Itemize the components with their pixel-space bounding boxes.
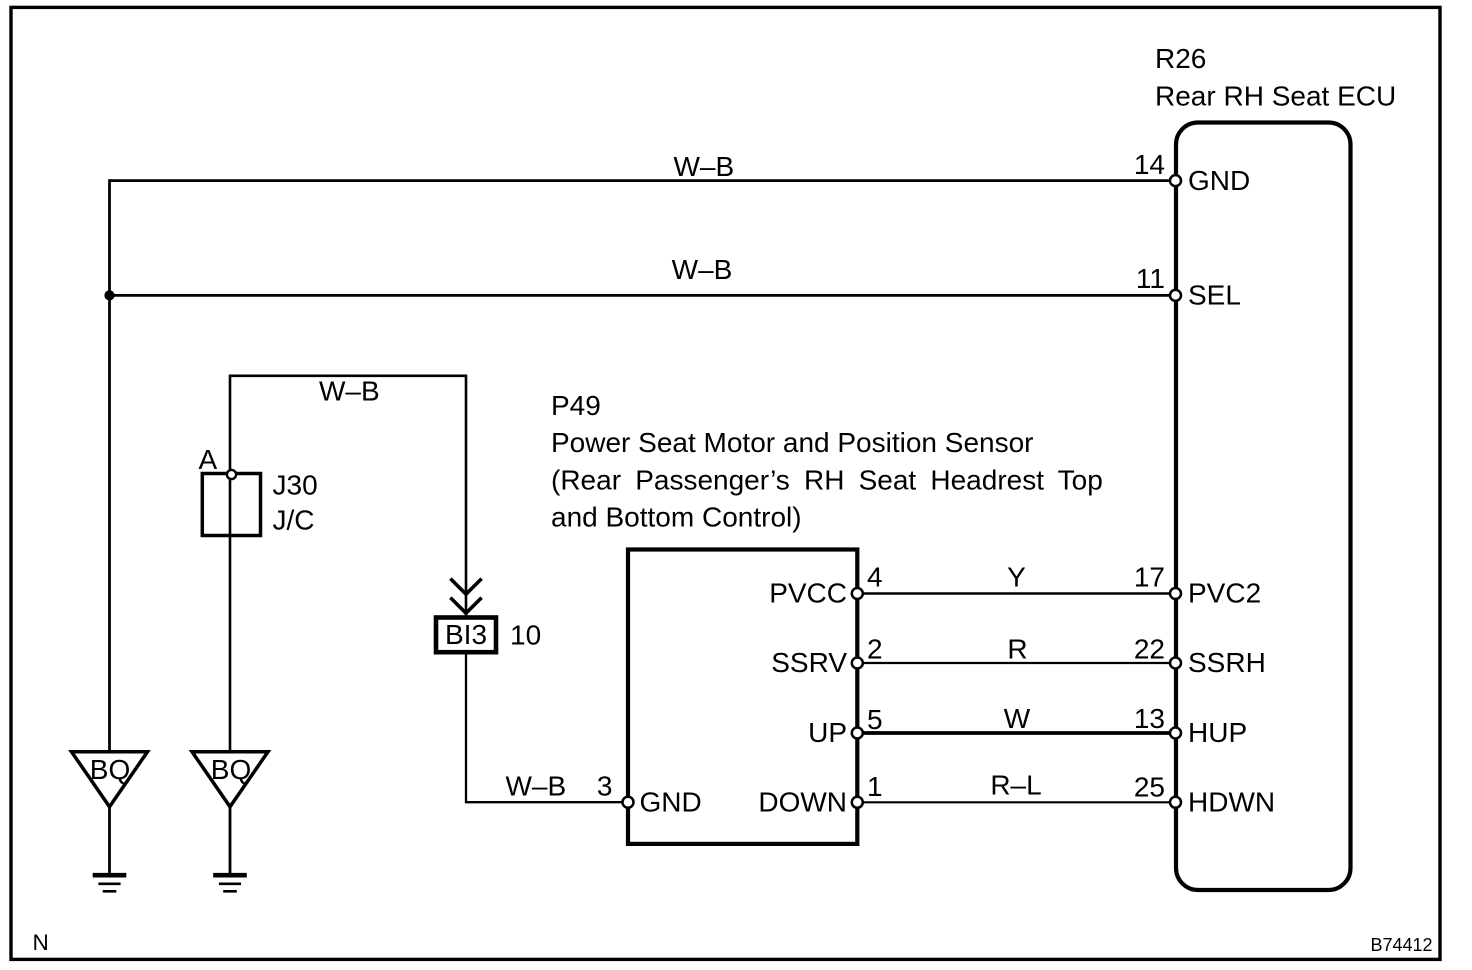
svg-text:R26: R26 <box>1155 43 1206 74</box>
wire from node A up and right <box>230 376 466 752</box>
ground BQ 2 triangle <box>192 752 268 807</box>
svg-text:GND: GND <box>640 787 702 818</box>
pin 17 PVC2 circle <box>1170 588 1181 599</box>
svg-text:P49: P49 <box>551 390 601 421</box>
svg-text:2: 2 <box>867 634 883 665</box>
svg-text:R–L: R–L <box>990 770 1041 801</box>
svg-text:J/C: J/C <box>273 505 315 536</box>
connector arrow chevron 1 <box>450 579 481 595</box>
svg-text:1: 1 <box>867 771 883 802</box>
ground BQ 1 triangle <box>72 752 148 807</box>
svg-text:W–B: W–B <box>505 771 566 802</box>
pin 2 SSRV circle <box>852 658 863 669</box>
svg-text:Y: Y <box>1007 562 1026 593</box>
connector arrow chevron 2 <box>450 598 481 614</box>
svg-text:GND: GND <box>1188 165 1250 196</box>
svg-text:DOWN: DOWN <box>758 787 847 818</box>
svg-text:and Bottom Control): and Bottom Control) <box>551 502 802 533</box>
connector BI3 box <box>436 618 496 653</box>
svg-text:5: 5 <box>867 704 883 735</box>
pin 11 SEL circle <box>1170 290 1181 301</box>
wire left vertical to ground BQ <box>108 179 111 752</box>
pin 3 GND circle <box>623 797 634 808</box>
svg-text:UP: UP <box>808 717 847 748</box>
svg-text:HDWN: HDWN <box>1188 787 1275 818</box>
svg-text:R: R <box>1007 634 1027 665</box>
svg-text:PVC2: PVC2 <box>1188 578 1261 609</box>
wire BI3 to GND pin 3 <box>466 654 624 802</box>
svg-text:(Rear Passenger’s RH Seat Head: (Rear Passenger’s RH Seat Headrest Top <box>551 465 1103 496</box>
svg-text:Power Seat Motor and Position: Power Seat Motor and Position Sensor <box>551 427 1033 458</box>
J30 junction box <box>202 474 260 536</box>
pin 4 PVCC circle <box>852 588 863 599</box>
ground symbol 1 <box>93 873 127 878</box>
svg-text:22: 22 <box>1134 634 1165 665</box>
svg-text:10: 10 <box>510 620 541 651</box>
svg-text:N: N <box>33 930 49 955</box>
svg-text:SSRV: SSRV <box>771 647 847 678</box>
svg-text:J30: J30 <box>273 470 318 501</box>
svg-text:Rear RH Seat ECU: Rear RH Seat ECU <box>1155 81 1396 112</box>
wire SSRV to SSRH (R) <box>857 662 1172 664</box>
ground symbol 2 <box>213 873 247 878</box>
svg-text:25: 25 <box>1134 772 1165 803</box>
pin 13 HUP circle <box>1170 728 1181 739</box>
wire UP to HUP (W) <box>857 731 1172 735</box>
svg-text:SEL: SEL <box>1188 280 1241 311</box>
svg-text:W–B: W–B <box>672 254 733 285</box>
svg-text:3: 3 <box>597 771 613 802</box>
svg-text:14: 14 <box>1134 149 1165 180</box>
wire PVCC to PVC2 (Y) <box>857 592 1172 595</box>
pin 5 UP circle <box>852 728 863 739</box>
svg-text:BQ: BQ <box>211 754 251 785</box>
junction dot <box>104 290 114 300</box>
pin 1 DOWN circle <box>852 797 863 808</box>
wire W-B to SEL pin 11 <box>110 294 1173 297</box>
svg-text:4: 4 <box>867 562 883 593</box>
svg-text:SSRH: SSRH <box>1188 647 1266 678</box>
svg-text:A: A <box>199 444 218 475</box>
svg-text:11: 11 <box>1136 263 1165 294</box>
pin 25 HDWN circle <box>1170 797 1181 808</box>
svg-text:W: W <box>1004 703 1031 734</box>
svg-text:B74412: B74412 <box>1370 935 1432 955</box>
svg-text:17: 17 <box>1134 562 1165 593</box>
node A circle <box>227 470 236 479</box>
svg-text:HUP: HUP <box>1188 717 1247 748</box>
ECU R26 box <box>1176 123 1351 891</box>
wire DOWN to HDWN (R-L) <box>857 801 1172 803</box>
svg-text:13: 13 <box>1134 703 1165 734</box>
svg-text:BI3: BI3 <box>445 619 487 650</box>
svg-text:W–B: W–B <box>673 151 734 182</box>
wire BQ 1 tail <box>108 807 111 874</box>
svg-text:BQ: BQ <box>90 754 130 785</box>
pin 14 GND circle <box>1170 175 1181 186</box>
wire BQ 2 tail <box>229 807 232 874</box>
P49 box <box>628 550 857 844</box>
wire W-B to GND pin 14 <box>110 179 1173 182</box>
pin 22 SSRH circle <box>1170 658 1181 669</box>
svg-text:PVCC: PVCC <box>769 578 847 609</box>
svg-text:W–B: W–B <box>319 375 380 406</box>
